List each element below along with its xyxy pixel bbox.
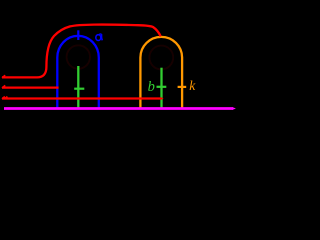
magenta arrow tip	[233, 107, 236, 110]
chord/arch diagram	[0, 0, 240, 115]
arrow barbs line 3 (double)	[2, 97, 7, 99]
arrow barb line 2	[2, 85, 5, 88]
svg-text:b: b	[148, 79, 155, 95]
dark circle in left arch	[67, 45, 90, 68]
green tick B	[157, 86, 167, 88]
svg-text:k: k	[189, 78, 196, 93]
green tick A	[74, 88, 84, 90]
green line B	[160, 68, 162, 110]
blue arch (node a span)	[57, 36, 99, 110]
orange tick on right side	[178, 86, 187, 88]
arrow barb line 1	[2, 75, 5, 78]
orange arch (node k span)	[140, 37, 182, 110]
green line A	[77, 66, 79, 110]
red wire: line 2	[2, 86, 59, 88]
red wire: line 1 with big curve over to orange arch apex	[2, 25, 161, 78]
red wire: line 3	[2, 97, 161, 99]
dark circle in right arch	[149, 46, 173, 70]
label a	[96, 34, 103, 41]
magenta baseline	[4, 107, 233, 110]
blue tick at arch apex	[77, 30, 79, 40]
